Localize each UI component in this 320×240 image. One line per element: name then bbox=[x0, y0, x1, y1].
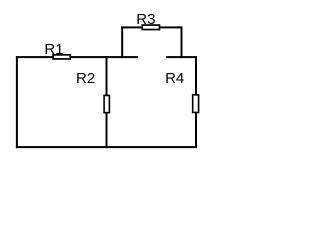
resistor R4 bbox=[193, 95, 199, 113]
wire R3 bridge right leg bbox=[181, 26, 183, 58]
svg-text:R1: R1 bbox=[44, 41, 63, 58]
wire middle vertical (R2 branch) bbox=[106, 56, 108, 148]
svg-text:R4: R4 bbox=[165, 70, 184, 87]
wire R3 bridge top horizontal bbox=[121, 26, 182, 28]
svg-text:R2: R2 bbox=[76, 70, 95, 87]
wire top-right horizontal bbox=[166, 56, 197, 58]
resistor R2 bbox=[104, 95, 109, 112]
wire R3 bridge left leg bbox=[121, 26, 123, 58]
wire left vertical bbox=[16, 56, 18, 148]
resistor R3 bbox=[142, 25, 159, 30]
wire top-left horizontal bbox=[16, 56, 138, 58]
wire bottom horizontal bbox=[16, 146, 197, 148]
svg-text:R3: R3 bbox=[136, 11, 155, 28]
resistor R1 bbox=[53, 55, 70, 59]
wire right vertical (R4 branch) bbox=[195, 56, 197, 148]
